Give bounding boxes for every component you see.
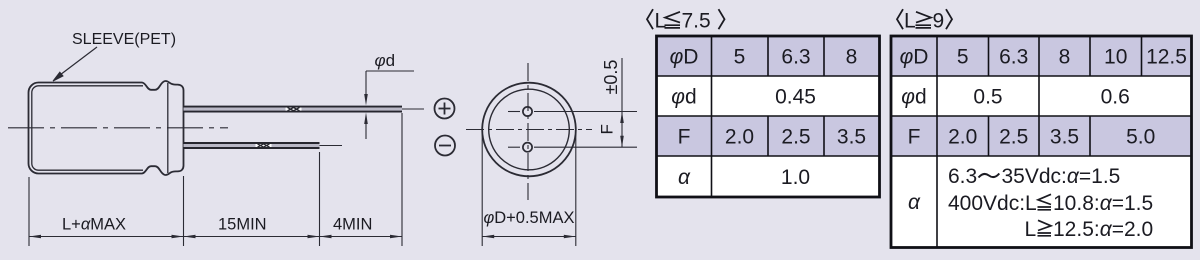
svg-text:2.0: 2.0 xyxy=(948,126,977,149)
svg-text:SLEEVE(PET): SLEEVE(PET) xyxy=(72,31,176,48)
svg-text:L: L xyxy=(1025,218,1037,241)
dimension L+alpha MAX xyxy=(29,216,184,239)
svg-text:φD+0.5MAX: φD+0.5MAX xyxy=(483,209,574,227)
svg-text:15MIN: 15MIN xyxy=(218,216,267,234)
svg-text:φD: φD xyxy=(670,46,699,69)
svg-text:L+αMAX: L+αMAX xyxy=(62,216,126,234)
top hole center dash xyxy=(508,111,520,113)
svg-text:0.5: 0.5 xyxy=(973,86,1002,109)
svg-text:6.3: 6.3 xyxy=(781,46,810,69)
svg-text:6.3: 6.3 xyxy=(999,46,1028,69)
dimension phi-d xyxy=(364,51,414,139)
svg-text:9: 9 xyxy=(933,10,945,33)
svg-text:12.5:α=2.0: 12.5:α=2.0 xyxy=(1053,218,1153,241)
vertical centerline xyxy=(527,63,529,200)
grid lines xyxy=(657,36,880,197)
polarity plus symbol xyxy=(435,99,455,119)
bottom dimension extension lines xyxy=(29,113,402,246)
svg-text:8: 8 xyxy=(846,46,858,69)
alpha cell line 3 xyxy=(1025,218,1154,241)
svg-text:2.5: 2.5 xyxy=(999,126,1028,149)
sleeve inner fold line xyxy=(32,86,143,170)
body centerline xyxy=(8,127,228,129)
svg-text:F: F xyxy=(678,126,691,149)
svg-text:φd: φd xyxy=(901,86,926,109)
svg-text:L: L xyxy=(655,10,667,33)
svg-text:3.5: 3.5 xyxy=(1050,126,1079,149)
svg-text:φD: φD xyxy=(900,46,929,69)
leader from - lead tip xyxy=(320,145,343,147)
dimension 4MIN xyxy=(320,216,403,239)
svg-text:12.5: 12.5 xyxy=(1146,46,1187,69)
svg-text:0.45: 0.45 xyxy=(775,86,816,109)
svg-text:0.6: 0.6 xyxy=(1101,86,1130,109)
alpha cell line 1 xyxy=(948,165,1120,188)
table 2 (L>=9) xyxy=(891,36,1192,248)
svg-text:5.0: 5.0 xyxy=(1126,126,1155,149)
title L<=7.5 xyxy=(647,9,725,32)
title L>=9 xyxy=(897,9,952,32)
svg-text:2.0: 2.0 xyxy=(725,126,754,149)
svg-text:L: L xyxy=(904,10,916,33)
svg-text:400Vdc:L: 400Vdc:L xyxy=(948,192,1037,215)
svg-text:2.5: 2.5 xyxy=(781,126,810,149)
bottom hole center dash xyxy=(508,146,520,148)
top lead hole xyxy=(523,107,532,116)
break mark top lead xyxy=(286,107,302,110)
svg-text:±0.5: ±0.5 xyxy=(601,60,621,95)
svg-text:5: 5 xyxy=(734,46,746,69)
F dimension line with arrows xyxy=(620,58,624,147)
capacitor body outline xyxy=(29,81,184,175)
bottom view outer circle xyxy=(482,83,576,177)
phiD+0.5MAX dimension xyxy=(482,133,576,246)
polarity minus symbol xyxy=(435,136,455,156)
svg-text:6.3: 6.3 xyxy=(948,165,977,188)
svg-text:F: F xyxy=(908,126,921,149)
svg-text:35Vdc:α=1.5: 35Vdc:α=1.5 xyxy=(1002,165,1121,188)
row fills xyxy=(891,36,1192,76)
svg-text:8: 8 xyxy=(1059,46,1071,69)
bottom lead hole xyxy=(523,143,532,152)
F dimension extension lines xyxy=(534,111,637,113)
alpha cell line 2 xyxy=(948,192,1153,215)
seal edge line xyxy=(167,83,169,173)
svg-text:φd: φd xyxy=(375,51,396,70)
svg-text:α: α xyxy=(678,166,691,189)
svg-text:10: 10 xyxy=(1104,46,1127,69)
table 1 (L<=7.5) xyxy=(657,36,880,197)
leader from + lead tip xyxy=(402,108,424,110)
svg-text:5: 5 xyxy=(957,46,969,69)
lead - (bottom) xyxy=(184,142,320,149)
table 1 texts xyxy=(670,46,867,190)
table 2 texts xyxy=(900,46,1187,215)
leader arrow to sleeve xyxy=(53,47,97,81)
row fills xyxy=(657,36,880,76)
break mark bottom lead xyxy=(256,144,272,147)
svg-text:F: F xyxy=(598,124,617,134)
grid lines xyxy=(891,36,1192,248)
bottom view inner circle xyxy=(489,89,570,170)
svg-text:10.8:α=1.5: 10.8:α=1.5 xyxy=(1053,192,1153,215)
dimension 15MIN xyxy=(184,216,320,239)
svg-text:7.5: 7.5 xyxy=(682,10,711,33)
lead + (top) xyxy=(184,106,403,113)
svg-text:1.0: 1.0 xyxy=(781,166,810,189)
horizontal centerline xyxy=(466,129,592,131)
svg-text:4MIN: 4MIN xyxy=(333,216,372,234)
svg-text:α: α xyxy=(908,191,921,214)
svg-text:φd: φd xyxy=(671,86,696,109)
svg-text:3.5: 3.5 xyxy=(837,126,866,149)
